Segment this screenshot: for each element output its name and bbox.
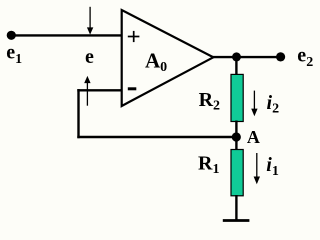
ground (223, 219, 250, 222)
svg-text:e: e (85, 46, 94, 68)
wire: feedback horizontal segment to node A (77, 136, 236, 138)
resistor R2 (231, 74, 243, 121)
wire: R1 to ground (235, 195, 237, 221)
wire: node A down to R1 (235, 137, 237, 151)
wire: R2 to node A (235, 121, 237, 138)
arrow: differential voltage e, down arrow onto + input wire (87, 7, 93, 35)
resistor R1 (231, 150, 243, 196)
terminal e2 (276, 52, 285, 61)
node A junction dot (232, 132, 241, 141)
wire: feedback vertical segment (77, 89, 79, 138)
wire: output node down to R2 (235, 57, 237, 76)
arrow i2 (current through R2) (251, 91, 257, 117)
op-amp - input marker (128, 87, 137, 90)
wire: op-amp - input horizontal segment (77, 89, 123, 91)
wire: e1 terminal to op-amp + input (11, 34, 123, 36)
junction: output node dot (232, 52, 241, 61)
arrow: differential voltage e, up arrow below - input wire (84, 76, 90, 106)
svg-text:A: A (247, 127, 260, 147)
op-amp + input marker (128, 31, 140, 42)
arrow i1 (current through R1) (254, 153, 260, 184)
wire: op-amp output to e2 terminal (212, 56, 281, 58)
op-amp U1 triangle (122, 10, 214, 106)
input terminal e1 (7, 31, 16, 40)
